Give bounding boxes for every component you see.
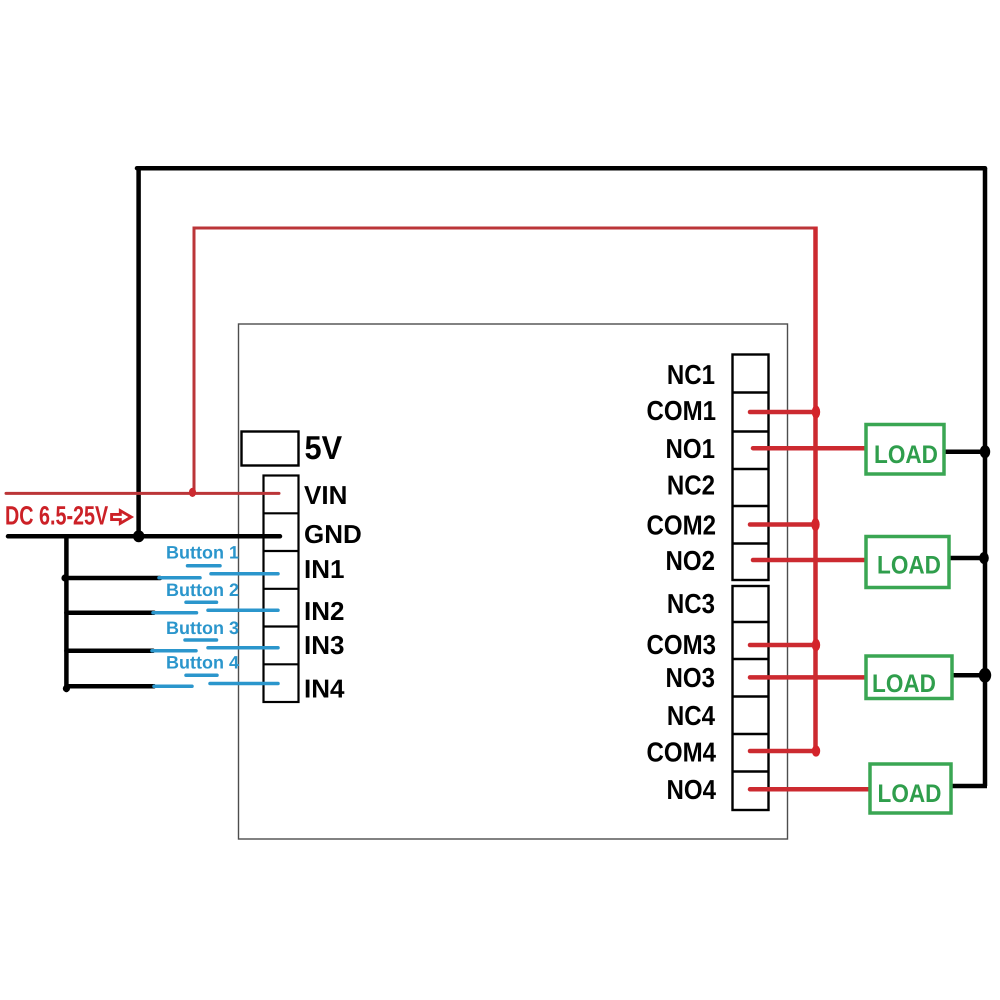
junction node COM3 <box>812 639 820 651</box>
button 4 left contact wire <box>154 685 192 689</box>
junction node LOAD1/GND bus <box>980 445 990 458</box>
wire COM red bus vertical <box>813 227 818 752</box>
button 1 left contact wire <box>159 576 200 580</box>
button 1 right contact wire to IN1 <box>211 572 278 576</box>
svg-text:NC1: NC1 <box>667 359 715 390</box>
wire COM4 stub <box>750 749 816 754</box>
wire NO1 to LOAD1 <box>753 446 866 451</box>
wire GND left vertical <box>136 168 141 536</box>
wire LOAD1 to GND bus <box>944 449 985 454</box>
button 3 actuator bar <box>185 638 217 642</box>
svg-text:NO1: NO1 <box>666 433 715 464</box>
svg-text:NC3: NC3 <box>667 588 715 619</box>
svg-text:IN3: IN3 <box>304 630 344 660</box>
junction node LOAD3/GND bus <box>979 668 991 683</box>
svg-text:Button 2: Button 2 <box>166 580 239 600</box>
LOAD box 1 <box>866 425 944 475</box>
divider COM2/NO2 <box>733 542 769 544</box>
svg-text:LOAD: LOAD <box>874 441 938 469</box>
pin divider IN2/IN3 <box>264 625 299 627</box>
LOAD box 2 <box>866 537 949 588</box>
button 4 right contact wire to IN4 <box>210 682 278 686</box>
LOAD box 4 <box>870 764 951 813</box>
svg-text:Button 4: Button 4 <box>166 653 239 673</box>
svg-text:IN2: IN2 <box>304 596 344 626</box>
pin divider IN3/IN4 <box>264 663 299 665</box>
divider NO3/NC4 <box>733 695 769 697</box>
svg-text:COM3: COM3 <box>646 629 716 660</box>
wire LOAD3 to GND bus <box>952 673 985 678</box>
button 3 left contact wire <box>152 649 196 653</box>
svg-text:Button 3: Button 3 <box>166 618 239 638</box>
svg-text:NC4: NC4 <box>667 700 716 731</box>
divider COM4/NO4 <box>733 770 769 772</box>
junction node GND/left vertical <box>133 530 144 542</box>
button 2 actuator bar <box>186 601 217 605</box>
button 3 right contact wire to IN3 <box>208 646 278 650</box>
relay terminal block K1 (NC1..NO2) <box>733 355 769 581</box>
button 1 actuator bar <box>188 564 221 568</box>
wire branch to button 2 <box>66 610 154 615</box>
wire button bus vertical <box>64 536 69 690</box>
junction node VIN wire <box>189 488 196 497</box>
wire COM2 stub <box>750 522 816 527</box>
junction node button bus top branch <box>61 574 68 581</box>
DC input arrow <box>112 511 132 524</box>
relay terminal block K2 (NC3..NO4) <box>733 586 769 810</box>
svg-text:LOAD: LOAD <box>872 670 936 698</box>
divider NC2/COM2 <box>733 505 769 507</box>
divider NC4/COM4 <box>733 733 769 735</box>
wire VIN supply horizontal to pin <box>6 492 279 495</box>
svg-text:LOAD: LOAD <box>878 780 942 808</box>
wire GND horizontal to pin <box>8 534 280 539</box>
wire VIN supply top horizontal <box>193 227 818 230</box>
board outline <box>239 324 788 839</box>
svg-text:COM4: COM4 <box>646 737 716 768</box>
wire LOAD4 to GND bus <box>951 784 987 789</box>
wire LOAD2 to GND bus <box>948 556 985 561</box>
svg-text:DC 6.5-25V: DC 6.5-25V <box>5 500 108 530</box>
wire branch to button 1 <box>66 576 160 581</box>
svg-text:GND: GND <box>304 519 362 549</box>
junction node LOAD2/GND bus <box>979 552 989 564</box>
junction node COM4 <box>812 745 820 756</box>
wire GND top horizontal <box>137 166 985 171</box>
svg-text:IN1: IN1 <box>304 554 344 584</box>
pin divider IN1/IN2 <box>264 588 299 590</box>
divider COM1/NO1 <box>733 430 769 432</box>
svg-text:COM1: COM1 <box>646 395 716 426</box>
button 4 actuator bar <box>186 674 217 678</box>
button 2 left contact wire <box>153 611 197 615</box>
svg-text:NO2: NO2 <box>666 545 715 576</box>
junction node button bus bottom <box>63 685 70 692</box>
svg-text:5V: 5V <box>305 429 343 466</box>
svg-text:LOAD: LOAD <box>877 552 941 580</box>
wire NO3 to LOAD3 <box>750 675 866 680</box>
junction node COM1 <box>812 405 820 418</box>
wire COM1 stub <box>750 410 816 415</box>
divider NC3/COM3 <box>733 621 769 623</box>
divider COM3/NO3 <box>733 658 769 660</box>
svg-text:NO3: NO3 <box>666 662 715 693</box>
svg-text:IN4: IN4 <box>304 673 345 703</box>
divider NO1/NC2 <box>733 468 769 470</box>
pin divider GND/IN1 <box>264 550 299 552</box>
svg-text:NO4: NO4 <box>667 774 717 805</box>
svg-text:Button 1: Button 1 <box>166 543 239 563</box>
wire VIN supply vertical <box>193 228 196 493</box>
svg-text:VIN: VIN <box>304 480 347 510</box>
svg-text:NC2: NC2 <box>667 470 715 501</box>
wire NO4 to LOAD4 <box>750 787 870 792</box>
5V header box <box>242 432 299 466</box>
LOAD box 3 <box>866 656 952 699</box>
wire NO2 to LOAD2 <box>753 558 867 563</box>
pin divider VIN/GND <box>264 512 299 514</box>
divider NC1/COM1 <box>733 391 769 393</box>
button 2 right contact wire to IN2 <box>208 609 278 613</box>
wire GND right vertical <box>983 168 988 786</box>
wire branch to button 3 <box>66 649 153 654</box>
left pin header J1 <box>264 476 299 703</box>
wire branch to button 4 <box>66 684 154 689</box>
junction node COM2 <box>811 518 819 531</box>
wire COM3 stub <box>750 643 816 648</box>
svg-text:COM2: COM2 <box>646 510 716 541</box>
